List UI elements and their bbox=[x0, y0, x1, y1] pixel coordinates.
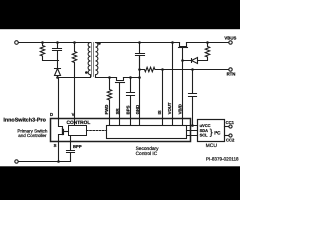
node drain bbox=[56, 76, 59, 79]
node vbd resistor bbox=[206, 41, 209, 44]
secondary control IC box bbox=[107, 126, 187, 139]
MCU box bbox=[198, 120, 225, 142]
svg-text:S: S bbox=[54, 143, 57, 148]
wire SR source to gnd bbox=[124, 77, 140, 79]
svg-text:CC1: CC1 bbox=[226, 120, 235, 125]
input terminal + bbox=[15, 41, 19, 45]
wire IS pin line bbox=[162, 70, 164, 119]
svg-text:VOUT: VOUT bbox=[167, 102, 172, 114]
svg-text:InnoSwitch3-Pro: InnoSwitch3-Pro bbox=[3, 117, 46, 123]
i2c lines to MCU bbox=[187, 126, 198, 136]
svg-text:PI-8379-020118: PI-8379-020118 bbox=[206, 157, 239, 162]
dashed link bbox=[87, 130, 107, 132]
capacitor uVcc bbox=[189, 70, 197, 126]
node IS bbox=[161, 68, 164, 71]
CC1 wire bbox=[225, 126, 229, 128]
CONTROL box bbox=[69, 126, 87, 136]
svg-text:BPP: BPP bbox=[73, 144, 82, 149]
transformer secondary winding bbox=[96, 43, 98, 78]
wire secondary top rail left bbox=[96, 42, 180, 44]
wire drain to primary winding bbox=[58, 77, 91, 79]
node gnd rail bbox=[138, 76, 141, 79]
wire secondary top rail right bbox=[187, 42, 229, 44]
bottom terminal bbox=[15, 160, 18, 163]
node S bbox=[57, 160, 60, 163]
transformer primary winding bbox=[88, 43, 90, 78]
node gate vbd bbox=[181, 59, 184, 62]
svg-text:SCL: SCL bbox=[200, 133, 209, 138]
BPP capacitor bbox=[67, 136, 75, 162]
node output cap bbox=[138, 41, 141, 44]
internal primary FET bbox=[59, 119, 63, 129]
svg-text:GND: GND bbox=[135, 105, 140, 115]
top black bar bbox=[0, 0, 240, 29]
node VOUT line bbox=[171, 41, 174, 44]
svg-text:V: V bbox=[72, 112, 75, 117]
load switch FET bbox=[180, 43, 187, 47]
pin stubs inside bbox=[110, 119, 183, 126]
node sense-cap bbox=[138, 68, 141, 71]
S pin wire bbox=[58, 142, 60, 162]
node clamp R bbox=[41, 41, 44, 44]
capacitor BPS bbox=[127, 78, 135, 119]
svg-text:FWD: FWD bbox=[104, 105, 109, 115]
svg-text:I²C: I²C bbox=[214, 131, 221, 136]
svg-text:and Controller: and Controller bbox=[18, 133, 47, 138]
svg-text:CONTROL: CONTROL bbox=[67, 120, 91, 126]
wire GND link bbox=[139, 56, 141, 119]
CC2 wire bbox=[225, 135, 229, 137]
wire bbox=[57, 61, 59, 69]
diode vbus detect bbox=[183, 58, 198, 64]
svg-text:VB/D: VB/D bbox=[178, 104, 183, 114]
svg-text:IS: IS bbox=[157, 110, 162, 114]
svg-text:CC2: CC2 bbox=[226, 137, 235, 142]
bottom rail bbox=[18, 161, 71, 163]
RTN rail bbox=[163, 69, 229, 71]
wire primary top rail bbox=[19, 42, 91, 44]
node FWD bbox=[108, 76, 111, 79]
svg-text:Control IC: Control IC bbox=[136, 151, 158, 157]
capacitor clamp bbox=[53, 43, 62, 61]
output capacitor bbox=[136, 43, 145, 70]
bottom black bar bbox=[0, 166, 240, 200]
wire VOUT line bbox=[172, 43, 174, 119]
transformer core bbox=[92, 43, 94, 77]
resistor current sense bbox=[140, 67, 163, 71]
node BPS bbox=[129, 76, 132, 79]
package outline InnoSwitch3-Pro bbox=[51, 119, 191, 142]
svg-text:VBUS: VBUS bbox=[224, 36, 236, 41]
node V resistor bbox=[73, 41, 76, 44]
svg-text:MCU: MCU bbox=[206, 143, 218, 149]
node uVcc cap top bbox=[191, 68, 194, 71]
node clamp C bbox=[56, 41, 59, 44]
phase dot primary bbox=[85, 71, 88, 74]
resistor V sense bbox=[72, 43, 76, 126]
svg-text:BPS: BPS bbox=[126, 105, 131, 114]
node uVcc line bbox=[191, 124, 194, 127]
resistor FWD bbox=[107, 78, 111, 119]
wire VB/D line bbox=[182, 61, 184, 119]
diode clamp bbox=[55, 69, 61, 78]
resistor clamp bbox=[40, 43, 58, 61]
gate lead SR bbox=[119, 83, 121, 119]
wire drain to D pin bbox=[58, 78, 60, 119]
SR FET bbox=[117, 78, 124, 81]
RTN terminal bbox=[229, 68, 232, 71]
wire secondary bottom bbox=[96, 77, 117, 79]
svg-text:}: } bbox=[210, 127, 213, 137]
svg-text:SR: SR bbox=[115, 108, 120, 115]
resistor vbus detect bbox=[198, 43, 210, 61]
svg-text:D: D bbox=[50, 112, 53, 117]
svg-text:RTN: RTN bbox=[227, 72, 236, 77]
VBUS terminal bbox=[229, 41, 232, 44]
phase dot secondary bbox=[98, 42, 101, 45]
gate lead load FET bbox=[182, 48, 184, 61]
